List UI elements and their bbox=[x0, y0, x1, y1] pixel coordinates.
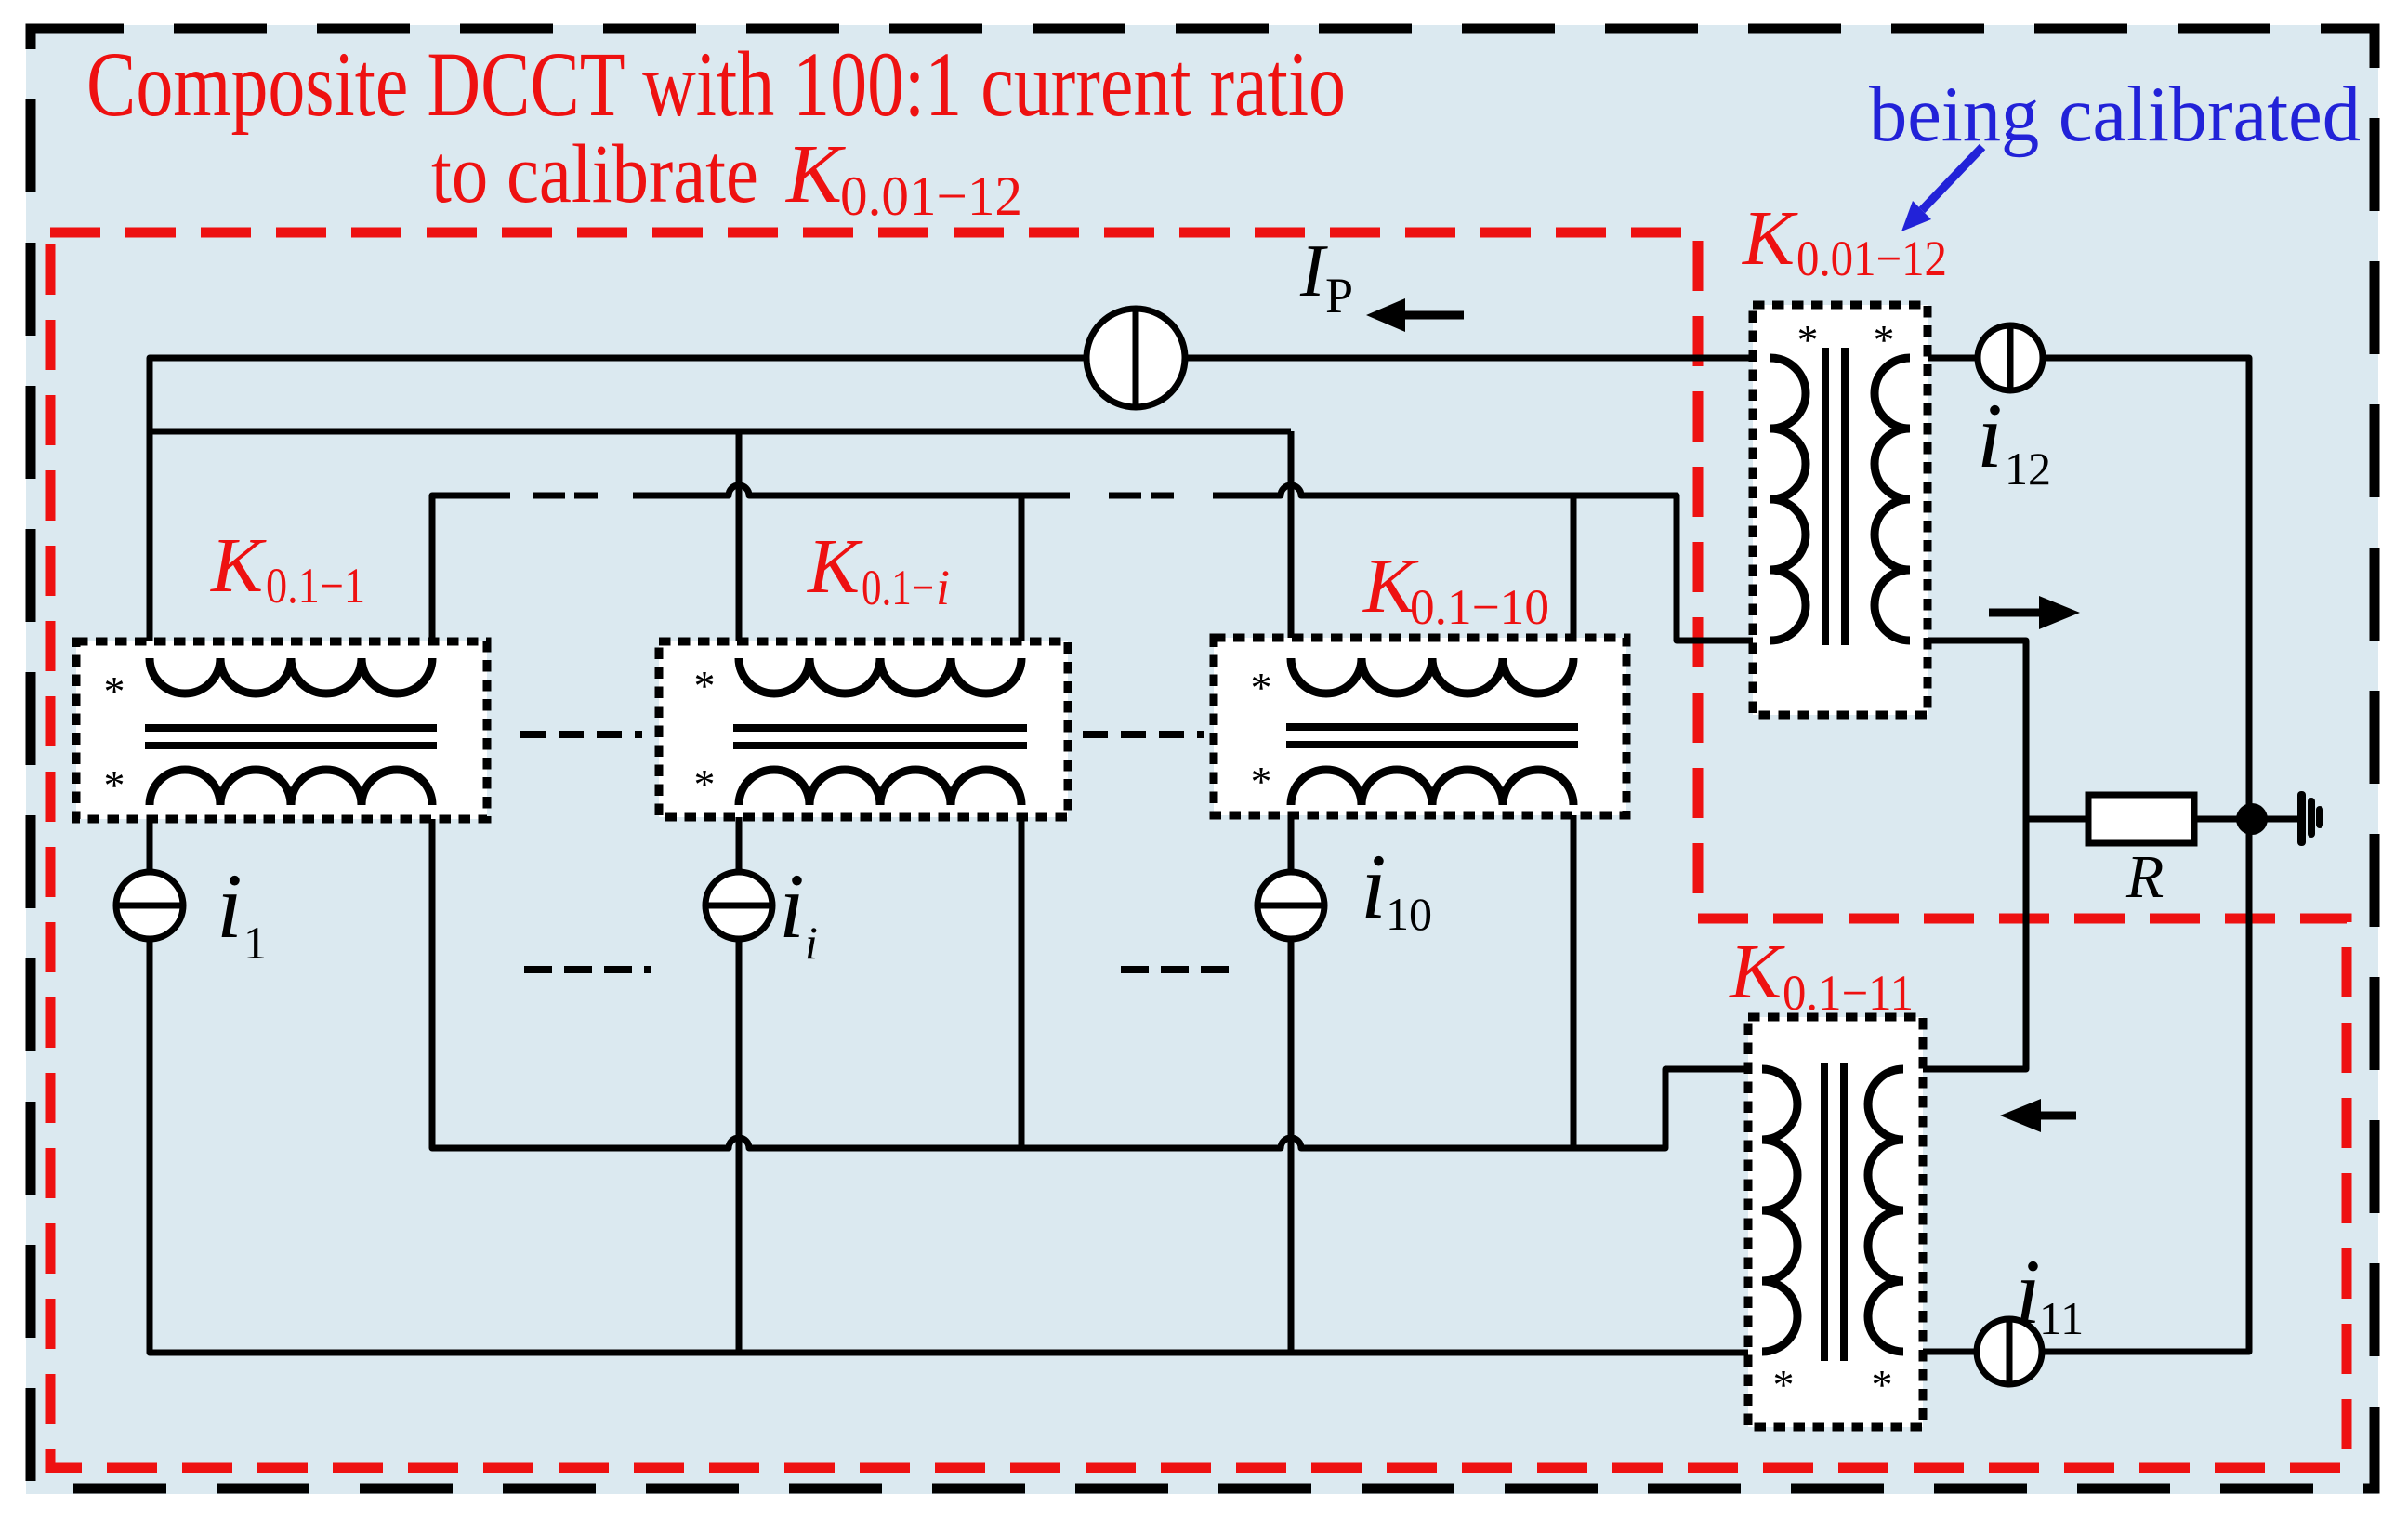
wire: resistor branch bbox=[2026, 816, 2297, 823]
K0.1-i bottom winding bbox=[739, 770, 1021, 805]
arrow: blue annotation pointer bbox=[1922, 147, 1982, 210]
svg-text:K: K bbox=[784, 128, 846, 220]
svg-text:*: * bbox=[104, 667, 125, 715]
K0.1-10 bottom winding bbox=[1291, 770, 1573, 805]
svg-text:0.1−10: 0.1−10 bbox=[1410, 579, 1549, 635]
svg-text:*: * bbox=[694, 662, 716, 709]
K0.01-12 left winding bbox=[1770, 358, 1806, 641]
arrow: K0.1-11 current direction (left) bbox=[2037, 1112, 2076, 1120]
transformer K0.1-1 box bbox=[76, 641, 487, 819]
wire: second horizontal bus y=464 bbox=[150, 429, 1291, 435]
svg-text:*: * bbox=[1251, 664, 1272, 711]
svg-text:*: * bbox=[1251, 758, 1272, 805]
K0.1-11 core bbox=[1824, 1063, 1844, 1361]
wire: K0.1-i top-left riser bbox=[736, 431, 743, 658]
svg-text:0.1−1: 0.1−1 bbox=[266, 558, 365, 614]
current source i11 bbox=[1977, 1319, 2042, 1384]
K0.1-10 core bbox=[1286, 727, 1578, 745]
wire: K0.1-10 top-right riser bbox=[1571, 495, 1577, 658]
transformer K0.1-11 box bbox=[1748, 1017, 1923, 1427]
svg-text:K: K bbox=[1742, 195, 1798, 282]
svg-text:0.1−11: 0.1−11 bbox=[1783, 965, 1914, 1021]
svg-text:i: i bbox=[1361, 835, 1387, 938]
svg-text:*: * bbox=[104, 761, 125, 809]
arrow: i12 output direction (right) bbox=[1989, 609, 2045, 617]
arrow: IP current direction (left) bbox=[1401, 311, 1464, 320]
svg-text:i: i bbox=[936, 560, 950, 615]
current source i_i bbox=[705, 872, 772, 939]
ground symbol bbox=[2297, 791, 2306, 846]
K0.01-12 right winding bbox=[1875, 358, 1910, 641]
svg-text:i: i bbox=[779, 854, 805, 958]
current source IP bbox=[1086, 309, 1185, 407]
core continuation dashes between K0.1-1 and K0.1-i bbox=[520, 731, 642, 738]
K0.1-11 left winding bbox=[1762, 1069, 1797, 1352]
wire: K0.01-12 bottom-right down to K0.1-11 right winding top bbox=[1903, 641, 2026, 1069]
svg-text:R: R bbox=[2125, 843, 2164, 911]
wire: i11 to K0.1-11 right winding bottom bbox=[1903, 1349, 1977, 1355]
svg-text:K: K bbox=[210, 522, 267, 609]
wire: i10 column bbox=[1288, 805, 1295, 1353]
resistor R bbox=[2088, 795, 2194, 843]
svg-text:1: 1 bbox=[243, 917, 267, 969]
core continuation dashes between K0.1-i and K0.1-10 bbox=[1083, 731, 1204, 738]
continuation dashes between source columns (right) bbox=[1121, 966, 1236, 973]
wire: K0.1-i top-right riser bbox=[1019, 495, 1025, 658]
svg-text:i: i bbox=[805, 917, 818, 969]
K0.1-1 top winding bbox=[150, 658, 432, 693]
wire: top primary bus from left riser to IP source bbox=[150, 358, 1086, 658]
transformer K0.1-i box bbox=[659, 641, 1068, 817]
current source i12 bbox=[1978, 325, 2043, 390]
svg-text:12: 12 bbox=[2005, 442, 2051, 495]
K0.1-i core bbox=[733, 728, 1027, 746]
junction dot bbox=[2236, 803, 2268, 835]
svg-text:P: P bbox=[1325, 268, 1353, 324]
transformer K0.1-10 box bbox=[1214, 638, 1626, 815]
svg-text:i: i bbox=[1977, 384, 2003, 487]
wire: i1 link from K0.1-1 bottom winding bbox=[147, 805, 153, 872]
K0.1-10 top winding bbox=[1291, 658, 1573, 693]
svg-text:K: K bbox=[807, 523, 863, 610]
wire: secondary chain y=533 from K0.1-1 with hops and dashes bbox=[432, 495, 510, 658]
K0.1-11 right winding bbox=[1868, 1069, 1903, 1352]
svg-text:*: * bbox=[1797, 316, 1819, 363]
svg-text:0.01−12: 0.01−12 bbox=[840, 165, 1022, 227]
svg-text:10: 10 bbox=[1386, 888, 1432, 940]
svg-text:I: I bbox=[1299, 231, 1328, 312]
svg-text:*: * bbox=[1872, 1361, 1893, 1408]
current source i1 bbox=[116, 872, 183, 939]
wire: K0.1-i bottom-right riser bbox=[1019, 805, 1025, 1148]
K0.1-1 bottom winding bbox=[150, 770, 432, 805]
svg-text:0.1−: 0.1− bbox=[862, 560, 934, 615]
K0.1-1 core bbox=[145, 728, 437, 746]
K0.01-12 core bbox=[1825, 348, 1845, 645]
wire: K0.1-10 bottom-right riser bbox=[1571, 805, 1577, 1148]
wire: i_i column bbox=[736, 805, 743, 1353]
svg-text:*: * bbox=[694, 760, 716, 808]
transformer K0.01-12 box bbox=[1753, 305, 1928, 715]
svg-text:11: 11 bbox=[2039, 1292, 2084, 1344]
svg-text:i: i bbox=[2015, 1240, 2041, 1343]
svg-text:*: * bbox=[1874, 316, 1895, 363]
wire: mid return bus y=1235 with hops, step up to K0.1-11 bbox=[432, 805, 1762, 1148]
svg-text:0.01−12: 0.01−12 bbox=[1796, 231, 1947, 286]
continuation dashes between source columns (left) bbox=[524, 966, 651, 973]
current source i10 bbox=[1257, 872, 1324, 939]
red dashed composite-DCCT boundary bbox=[50, 232, 2347, 1468]
wire: top primary bus from IP source to K0.01-12 left winding bbox=[1185, 355, 1770, 362]
K0.1-i top winding bbox=[739, 658, 1021, 693]
svg-text:*: * bbox=[1773, 1361, 1795, 1408]
svg-text:Composite DCCT with 100:1 curr: Composite DCCT with 100:1 current ratio bbox=[86, 33, 1346, 136]
wire: bottom bus from i1 column to K0.1-11 left winding bbox=[150, 939, 1762, 1353]
svg-text:i: i bbox=[217, 854, 243, 958]
wire: K0.1-10 top-left riser (crosses chain wire) bbox=[1288, 431, 1295, 658]
wire: K0.01-12 right winding top to i12 and down right side to i11 bbox=[1910, 355, 1978, 362]
svg-text:being calibrated: being calibrated bbox=[1869, 71, 2361, 158]
svg-text:K: K bbox=[1729, 929, 1785, 1015]
svg-text:to calibrate: to calibrate bbox=[431, 128, 758, 220]
